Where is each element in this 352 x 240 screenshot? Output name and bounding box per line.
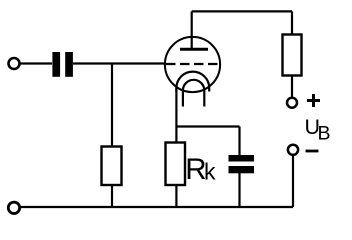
resistor R1 (grid leak) xyxy=(102,147,122,186)
anode lead xyxy=(191,11,193,49)
plus terminal xyxy=(287,98,297,108)
wire junction down to R1 xyxy=(111,64,113,148)
wire cathode branch to C2 xyxy=(176,125,239,127)
svg-text:B: B xyxy=(318,123,331,145)
wire anode to top rail xyxy=(192,10,292,12)
resistor R2 (anode load) xyxy=(283,35,302,76)
anode plate bar xyxy=(180,48,208,51)
wire Rk to ground rail xyxy=(175,185,177,207)
capacitor C1 (coupling) xyxy=(52,52,72,77)
cathode lead xyxy=(175,88,177,143)
capacitor C2 (cathode bypass) xyxy=(229,155,255,173)
label UB xyxy=(305,115,331,145)
heater filament arch xyxy=(183,80,204,107)
ground terminal J2 xyxy=(8,202,19,213)
ground rail xyxy=(21,206,293,208)
wire minus terminal to ground rail xyxy=(292,155,294,208)
svg-text:k: k xyxy=(204,159,216,185)
wire input to capacitor C1 xyxy=(21,62,53,64)
resistor Rk (cathode) xyxy=(166,143,186,186)
cathode arc xyxy=(176,72,209,92)
input terminal J1 xyxy=(9,58,20,69)
wire R1 to ground rail xyxy=(111,185,113,207)
plus sign xyxy=(307,94,320,107)
wire branch down to C2 xyxy=(238,127,240,156)
tube V1 envelope xyxy=(165,37,220,92)
wire R2 to plus terminal xyxy=(291,76,293,99)
wire C2 to ground rail xyxy=(238,173,240,207)
minus sign xyxy=(306,150,319,153)
wire top rail down to R2 xyxy=(291,11,293,35)
wire C1 to tube grid xyxy=(73,62,166,64)
minus terminal xyxy=(288,145,298,155)
label Rk xyxy=(185,153,216,186)
grid (dashed) xyxy=(166,63,220,65)
